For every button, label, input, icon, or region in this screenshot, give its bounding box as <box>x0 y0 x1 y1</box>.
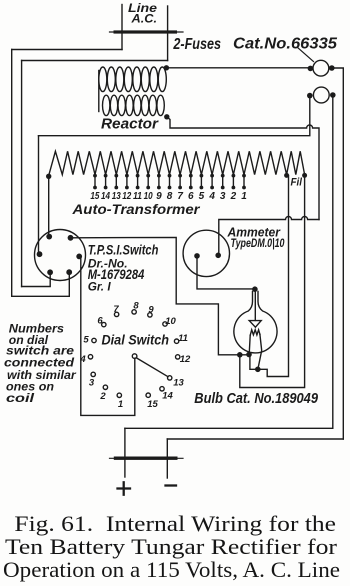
wire: fuse F2 right down to battery positive rail <box>125 95 333 428</box>
reactor L1 bottom coil row <box>103 95 165 115</box>
label: Fil <box>291 177 303 189</box>
svg-text:TypeDM.0|10: TypeDM.0|10 <box>231 236 285 250</box>
svg-text:7: 7 <box>113 304 119 315</box>
svg-text:15: 15 <box>147 399 158 410</box>
bulb V1 envelope <box>234 292 277 353</box>
fuse block bar F0 <box>110 30 184 33</box>
node: Fil tap B <box>302 173 307 178</box>
label: Auto-Transformer <box>71 201 201 217</box>
svg-text:Bulb Cat. No.189049: Bulb Cat. No.189049 <box>194 391 318 407</box>
svg-text:Dial Switch: Dial Switch <box>102 333 170 348</box>
svg-text:4: 4 <box>208 191 215 202</box>
wire: outer-left vertical <box>11 50 13 297</box>
wire: switch top-right contact to bulb output run <box>71 237 251 354</box>
label: tap numbers 15..1 <box>90 191 247 202</box>
node: bulb anode terminal <box>252 286 258 292</box>
bulb filament <box>250 330 260 336</box>
bulb filament legs <box>249 334 262 369</box>
wire: outer-left to switch bottom-right contact <box>12 272 70 296</box>
svg-text:6: 6 <box>97 316 103 327</box>
battery B1 plate bar <box>110 457 184 460</box>
svg-text:3: 3 <box>89 378 95 389</box>
svg-text:Ten Battery Tungar Rectifier f: Ten Battery Tungar Rectifier for <box>5 534 338 559</box>
node: reactor bottom-right terminal <box>164 114 169 119</box>
label: 2-Fuses Cat.No.66335 with leader <box>173 36 339 53</box>
node: Fil tap A <box>284 173 289 178</box>
svg-text:2: 2 <box>230 191 237 202</box>
wire: battery negative rail to fuse F1 drop <box>167 438 343 440</box>
op switch U1 (T.P.S.I. switch) circle <box>35 230 86 281</box>
wire: left leg link down to right-leg node <box>250 355 258 370</box>
ammeter contact dots <box>194 253 221 259</box>
wire: inner-left vertical <box>21 61 23 287</box>
svg-text:5: 5 <box>199 191 205 202</box>
svg-text:12: 12 <box>180 354 191 365</box>
wire: fuse bar left terminal to outer-left drop <box>12 49 122 51</box>
svg-text:2: 2 <box>99 391 106 402</box>
fuse F2 <box>307 87 336 103</box>
wire: ammeter right terminal up and over to reactor drop (hops over Fil wires) <box>218 217 319 256</box>
wire: label leader line to fuse F1 <box>298 48 314 62</box>
wire: battery positive lead <box>124 428 126 477</box>
svg-text:coil: coil <box>6 391 35 405</box>
wire: reactor row interconnect (left) <box>98 71 100 112</box>
wire: ammeter left terminal down to bulb anode top <box>197 256 255 289</box>
dial switch contact circles <box>88 310 180 398</box>
wire: battery negative lead <box>166 439 168 478</box>
svg-text:Gr. I: Gr. I <box>88 280 111 294</box>
svg-text:5: 5 <box>83 335 89 346</box>
label: Dial Switch <box>102 333 170 348</box>
wire: right filament leg to Fil tap A <box>258 175 289 376</box>
svg-text:Fil: Fil <box>291 177 303 189</box>
ammeter M1 circle <box>183 230 229 276</box>
svg-text:1: 1 <box>118 399 123 410</box>
label: dial contact numbers <box>79 301 191 411</box>
label: Reactor <box>101 117 159 133</box>
node: reactor top-right terminal <box>164 65 169 70</box>
node: winding start <box>46 174 51 179</box>
svg-text:14: 14 <box>162 391 173 402</box>
label: note text (numbers on dial...) <box>4 322 77 406</box>
label: + terminal <box>118 482 131 494</box>
label: Bulb Cat. No.189049 <box>194 391 318 407</box>
svg-text:Cat.No.66335: Cat.No.66335 <box>233 36 338 53</box>
wire: fuse F2 left lead down to long cross wire <box>39 96 310 136</box>
wire: reactor bottom row to right-side drop (hops over fuse2 wire) <box>167 117 319 220</box>
svg-text:Auto-Transformer: Auto-Transformer <box>71 201 201 217</box>
dial switch wiper pivot and arm <box>132 354 168 377</box>
svg-text:Fig. 61. Internal Wiring for: Fig. 61. Internal Wiring for the <box>14 511 336 536</box>
wire: AC line lead right (top) <box>167 6 169 61</box>
wire: fuse bar right terminal to inner-left drop <box>22 60 168 62</box>
switch contact dots <box>37 234 83 275</box>
label: Line A.C. <box>128 3 158 26</box>
svg-text:13: 13 <box>173 378 184 389</box>
wire: AC line lead left (top) <box>121 5 123 50</box>
svg-text:T.P.S.I.Switch: T.P.S.I.Switch <box>88 243 159 258</box>
svg-text:Reactor: Reactor <box>101 117 159 133</box>
svg-text:A.C.: A.C. <box>130 14 157 26</box>
wire: fuse F1 right to outer-right vertical <box>332 68 344 439</box>
svg-text:1: 1 <box>241 191 247 202</box>
svg-text:8: 8 <box>133 301 139 312</box>
svg-text:4: 4 <box>79 354 86 365</box>
svg-text:10: 10 <box>165 316 176 327</box>
svg-text:9: 9 <box>148 305 154 316</box>
caption: figure caption <box>3 511 340 582</box>
svg-text:11: 11 <box>178 333 188 344</box>
wire: left filament leg to Fil tap B <box>240 175 305 387</box>
svg-text:Operation on a 115 Volts, A. C: Operation on a 115 Volts, A. C. Line <box>3 557 340 582</box>
wire: reactor top row to fuse F1 <box>166 67 310 69</box>
reactor L1 top coil row <box>99 67 167 92</box>
node: bulb cathode left junction dots <box>237 352 261 372</box>
label: T.P.S.I. switch text block <box>88 243 159 294</box>
fuse F1 <box>308 60 335 76</box>
wire: winding start down to switch top-left contact <box>48 176 50 236</box>
label: - terminal <box>166 484 177 486</box>
svg-text:3: 3 <box>220 191 226 202</box>
svg-text:2-Fuses: 2-Fuses <box>173 36 221 53</box>
auto-transformer T1 winding <box>49 151 305 176</box>
bulb anode stem and plate <box>249 292 261 328</box>
transformer tap stems <box>93 174 246 190</box>
wire: drop to switch left contact <box>38 136 40 255</box>
label: Ammeter Type DM. 0|10 <box>227 225 285 250</box>
wire: inner-left to switch bottom-left contact <box>22 272 51 286</box>
wire: dial wiper loop (right contact down, around bottom) <box>79 256 135 415</box>
